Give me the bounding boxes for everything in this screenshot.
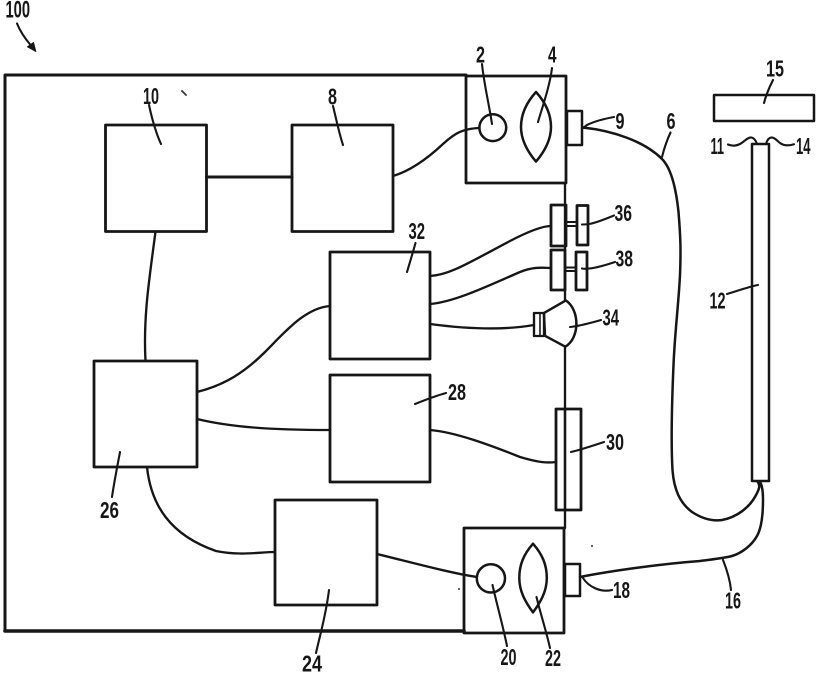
svg-text:30: 30 xyxy=(606,429,624,455)
svg-text:36: 36 xyxy=(615,200,633,226)
wire 28 to port 30 xyxy=(430,430,556,462)
enclosure right wall (upper segment) xyxy=(564,183,566,300)
emitter 34 horn xyxy=(544,300,576,346)
wire 32 to filter 36 xyxy=(430,226,551,276)
svg-text:20: 20 xyxy=(501,644,517,670)
wire 32 to filter 38 xyxy=(430,268,551,304)
emitter 34 coupler inner line xyxy=(539,313,541,336)
enclosure right wall (lower segment) xyxy=(564,347,566,528)
box 32 xyxy=(330,252,430,359)
filter 38 link lines xyxy=(565,268,576,272)
filter pair 36 left element xyxy=(551,205,566,246)
wire 8 to lamp circle 2 xyxy=(393,128,480,176)
leader 16 xyxy=(723,560,731,590)
box 8 xyxy=(292,125,393,232)
scan speck near label 10 xyxy=(182,91,186,95)
wire 26 to 28 xyxy=(197,419,330,430)
svg-text:22: 22 xyxy=(545,645,561,671)
svg-text:18: 18 xyxy=(613,577,630,603)
lamp circle 2 xyxy=(479,114,506,141)
leader 12 xyxy=(727,285,758,294)
box 28 xyxy=(330,375,430,482)
wire 10 to 8 xyxy=(207,176,293,179)
leader 26 xyxy=(112,452,120,497)
filter pair 36 right element xyxy=(577,206,588,246)
svg-text:6: 6 xyxy=(667,108,676,134)
svg-text:100: 100 xyxy=(6,0,31,24)
detector circle 20 xyxy=(477,564,505,592)
wand body 12 xyxy=(752,144,769,481)
leader 4 xyxy=(538,68,552,122)
box 26 xyxy=(94,361,197,467)
leader 15 xyxy=(764,80,773,103)
svg-text:24: 24 xyxy=(302,651,322,673)
svg-text:11: 11 xyxy=(711,133,725,159)
lens 22 xyxy=(519,544,547,613)
leader 10 xyxy=(149,105,161,144)
leader 38 xyxy=(582,262,615,269)
svg-text:16: 16 xyxy=(725,588,741,614)
svg-text:34: 34 xyxy=(603,305,620,331)
leader 6 xyxy=(662,133,671,158)
squiggle 11 xyxy=(728,137,757,145)
scan speck near detector box xyxy=(458,588,460,590)
leader 20 xyxy=(493,585,508,646)
box 10 xyxy=(106,125,207,232)
svg-text:9: 9 xyxy=(616,108,625,134)
wand cap 15 xyxy=(714,95,814,121)
wire 24 to detector circle 20 xyxy=(377,554,477,577)
box 24 xyxy=(275,500,377,605)
svg-text:26: 26 xyxy=(100,497,119,523)
leader 32 xyxy=(407,243,416,272)
wire 32 to emitter 34 xyxy=(430,324,534,328)
filter pair 38 right element xyxy=(576,252,587,290)
leader 8 xyxy=(333,106,343,145)
scan speck near port 30 xyxy=(591,545,593,547)
svg-text:10: 10 xyxy=(143,83,159,109)
leader 28 xyxy=(415,393,446,404)
light source housing (2,4) xyxy=(466,76,566,183)
svg-text:15: 15 xyxy=(766,56,784,82)
leader 2 xyxy=(482,64,492,124)
filter 36 link lines xyxy=(566,222,577,226)
wire 26 to 24 xyxy=(147,467,275,554)
leader 9 xyxy=(583,117,614,128)
lens 4 xyxy=(521,92,551,162)
wire 10 to 26 xyxy=(145,232,156,362)
svg-text:32: 32 xyxy=(409,218,426,244)
leader 22 xyxy=(537,597,551,648)
leader 36 xyxy=(582,216,614,225)
leader 34 xyxy=(570,320,601,327)
wire 26 to 32 xyxy=(197,306,330,392)
detector housing (20,22) xyxy=(464,528,564,633)
arrow for 100 xyxy=(17,24,31,46)
enclosure 100 outline xyxy=(5,75,466,631)
svg-text:12: 12 xyxy=(710,288,726,314)
leader 18 xyxy=(583,578,612,591)
filter pair 38 left element xyxy=(551,250,565,290)
fiber cable 6 xyxy=(583,128,760,521)
input port 18 xyxy=(565,564,580,596)
svg-text:28: 28 xyxy=(448,379,466,405)
port 30 xyxy=(556,409,581,510)
wall line through port 30 xyxy=(564,409,566,510)
fiber cable 16 xyxy=(580,482,763,577)
output port 9 xyxy=(567,111,582,145)
svg-text:14: 14 xyxy=(796,133,811,159)
leader 30 xyxy=(571,442,604,452)
squiggle 14 xyxy=(766,137,794,145)
svg-text:2: 2 xyxy=(476,42,485,68)
svg-text:4: 4 xyxy=(548,42,557,68)
leader 24 xyxy=(316,590,329,653)
svg-text:38: 38 xyxy=(616,246,634,272)
emitter 34 coupler rect xyxy=(534,313,544,336)
